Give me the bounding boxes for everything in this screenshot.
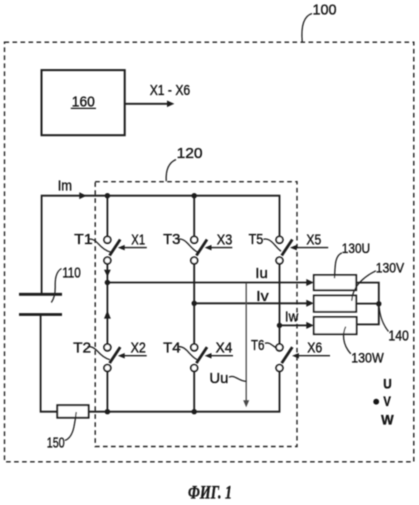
node dot bottom rail T2 <box>105 409 110 414</box>
leader 130W <box>344 327 351 354</box>
leader Uu <box>229 376 246 381</box>
wire: top rail <box>42 196 280 294</box>
wire: bottom rail <box>89 371 280 411</box>
switch T4 <box>191 344 207 371</box>
node C (Iw) <box>277 323 282 328</box>
wire: phase A lower stub <box>106 371 108 411</box>
svg-text:X2: X2 <box>131 339 146 356</box>
capacitor 110 <box>19 293 62 296</box>
svg-text:130W: 130W <box>351 350 384 366</box>
svg-text:130U: 130U <box>342 240 370 256</box>
wire: phase A mid <box>106 264 108 344</box>
svg-text:Iv: Iv <box>256 289 269 305</box>
svg-text:X1 - X6: X1 - X6 <box>150 83 191 99</box>
switch T6 <box>276 344 292 371</box>
svg-text:Uu: Uu <box>209 371 228 387</box>
bullet node <box>373 399 379 405</box>
leader T2 <box>87 347 109 360</box>
svg-text:110: 110 <box>62 265 81 281</box>
leader T5 <box>263 239 281 251</box>
control arrow X6 <box>298 355 330 357</box>
leader 130V <box>352 271 376 301</box>
svg-text:Iw: Iw <box>285 309 299 325</box>
leader 150 <box>65 412 76 440</box>
resistor 150 <box>57 405 88 418</box>
svg-text:T2: T2 <box>73 339 91 356</box>
svg-text:130V: 130V <box>376 259 405 275</box>
leader 120 <box>166 160 176 182</box>
leader 140 <box>379 308 388 332</box>
wire: phase B mid <box>193 264 195 344</box>
svg-text:X5: X5 <box>306 231 321 248</box>
leader T3 <box>178 239 198 252</box>
svg-text:T5: T5 <box>249 231 264 248</box>
node dot connector 140 <box>376 301 381 306</box>
switch T1 <box>104 236 120 263</box>
node A (Iu) <box>105 280 110 285</box>
svg-text:V: V <box>383 393 391 409</box>
wire: phase A upper stub <box>106 196 108 237</box>
leader 100 <box>302 14 312 42</box>
node dot top rail T3 <box>192 193 197 198</box>
svg-text:ФИГ. 1: ФИГ. 1 <box>188 483 232 500</box>
svg-text:150: 150 <box>47 436 65 452</box>
svg-text:100: 100 <box>313 3 337 19</box>
load box 130U <box>314 275 356 290</box>
inner dashed box 120 <box>95 182 297 447</box>
svg-text:X3: X3 <box>217 231 233 248</box>
measurement line Uu <box>245 283 247 401</box>
svg-text:X6: X6 <box>307 339 322 356</box>
node dot top rail T1 <box>105 193 110 198</box>
arrow X1-X6 out of 160 <box>125 103 168 105</box>
control arrow X1 <box>124 247 147 249</box>
wire: phase B upper stub <box>193 196 195 237</box>
svg-text:W: W <box>381 411 394 427</box>
box 160 <box>42 70 125 135</box>
control arrow X5 <box>296 247 328 249</box>
svg-text:120: 120 <box>177 146 203 162</box>
wire: phase C mid <box>279 264 281 344</box>
control arrow X3 <box>211 247 233 249</box>
leader 130U <box>335 253 343 278</box>
wire: phase B lower stub <box>193 371 195 411</box>
switch T3 <box>191 236 207 263</box>
arrow Im <box>79 192 86 199</box>
current arrow up phase A <box>104 310 111 318</box>
switch T2 <box>104 344 120 371</box>
node dot bottom rail T4 <box>192 409 197 414</box>
svg-text:Im: Im <box>58 178 72 194</box>
wire Iv <box>194 302 307 304</box>
node B (Iv) <box>192 301 197 306</box>
switch T5 <box>276 236 292 263</box>
leader T4 <box>178 347 198 360</box>
wire Iu <box>107 282 307 284</box>
leader T1 <box>88 239 110 252</box>
svg-text:U: U <box>383 376 392 392</box>
svg-text:140: 140 <box>388 328 409 344</box>
control arrow X2 <box>124 355 147 357</box>
svg-text:T6: T6 <box>251 337 265 354</box>
current arrow down phase A <box>104 270 111 277</box>
svg-text:X1: X1 <box>131 231 145 248</box>
load box 130V <box>314 296 356 312</box>
leader T6 <box>265 343 276 348</box>
svg-text:X4: X4 <box>216 339 233 356</box>
wire Iw <box>280 324 308 326</box>
wire: left bottom <box>41 315 58 412</box>
wire: load common connector <box>356 283 379 325</box>
load box 130W <box>314 317 357 334</box>
control arrow X4 <box>211 355 233 357</box>
svg-text:T4: T4 <box>163 339 180 356</box>
svg-text:Iu: Iu <box>255 266 267 282</box>
leader 110 <box>51 269 61 303</box>
